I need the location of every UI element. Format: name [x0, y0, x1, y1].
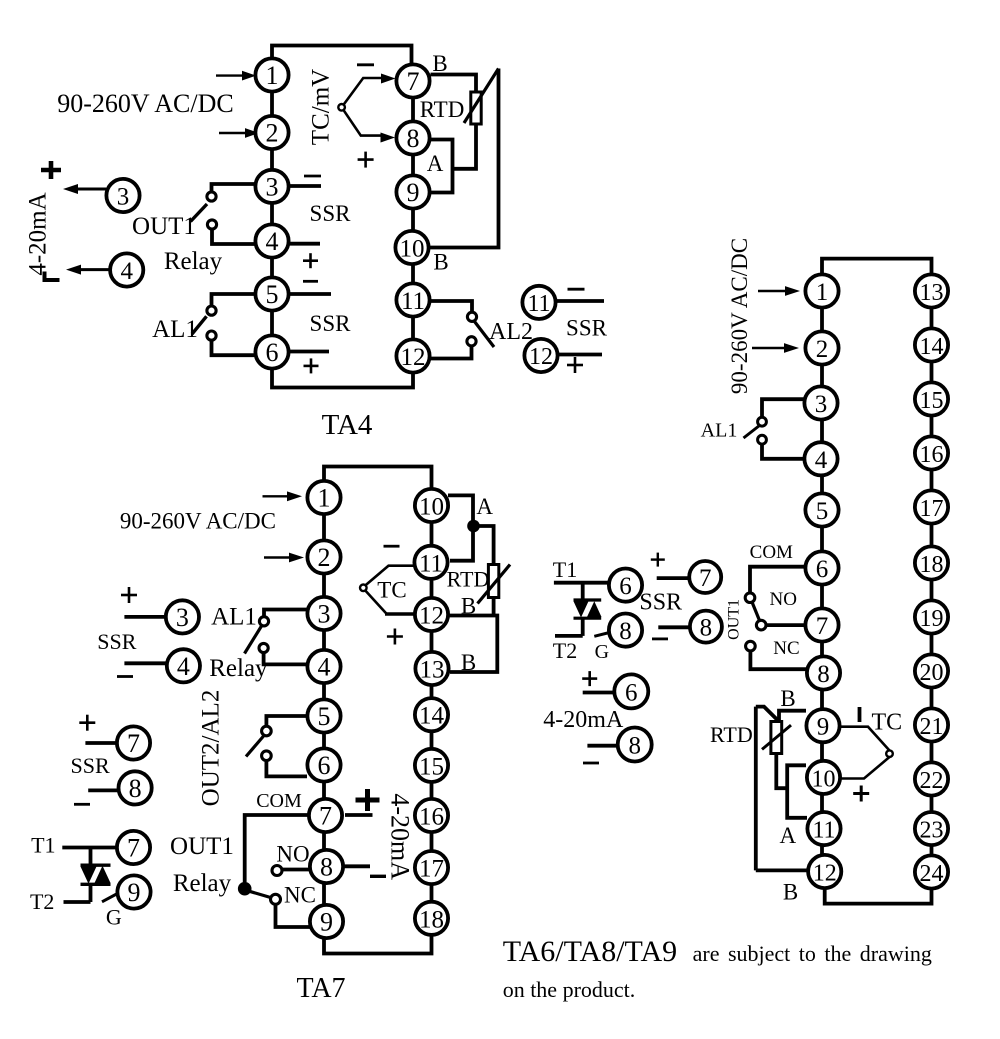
label minus (4-20mA) — [583, 762, 599, 765]
wire terminal3 to OUT1 switch — [212, 184, 257, 192]
OUT1 junction dot — [238, 882, 252, 896]
wire right column terminals 13-24 — [930, 291, 934, 872]
wire AL1 switch: terminal5 to contact — [212, 294, 257, 306]
TC node — [360, 585, 367, 592]
svg-text:11: 11 — [812, 818, 835, 844]
wire TC plus to terminal12 — [365, 591, 386, 614]
wire stub right of terminal8 — [344, 864, 370, 868]
svg-text:Relay: Relay — [164, 248, 223, 275]
svg-text:3: 3 — [318, 600, 331, 629]
wire AL1 switch to terminal4 — [264, 653, 307, 665]
AL1 switch bottom contact — [259, 643, 268, 652]
wire TA4 left column terminals 1-6 — [270, 75, 274, 352]
wire A-loop terminal10-terminal11 — [787, 765, 807, 818]
wire left column terminals 1-12 — [820, 291, 824, 872]
svg-text:4: 4 — [318, 653, 331, 682]
wire stub into terminal7 — [85, 741, 117, 745]
svg-text:1: 1 — [266, 61, 279, 90]
terminal 12 (AL2 SSR out) — [524, 339, 557, 372]
svg-text:4-20mA: 4-20mA — [543, 707, 624, 733]
svg-text:8: 8 — [619, 618, 632, 645]
svg-text:SSR: SSR — [566, 316, 608, 341]
svg-text:OUT1: OUT1 — [170, 833, 234, 860]
svg-text:on the product.: on the product. — [503, 977, 636, 1002]
terminal 22 — [915, 762, 948, 795]
arrow out of terminal 4 — [79, 268, 110, 271]
terminal 4 — [255, 224, 288, 257]
svg-text:4: 4 — [815, 447, 828, 474]
TC node — [338, 104, 345, 111]
RTD resistor — [488, 565, 498, 598]
TA7 terminal 10 — [415, 489, 448, 522]
svg-text:12: 12 — [419, 603, 444, 630]
label plus (OUT1 SSR) — [79, 715, 95, 731]
wire NO contact to terminal8 — [283, 868, 312, 872]
terminal 6 — [255, 335, 288, 368]
OUT1 NO contact — [756, 620, 766, 630]
wire TC minus to terminal11 — [366, 566, 415, 586]
terminal 11 — [396, 283, 429, 316]
terminal 3 — [804, 386, 837, 419]
svg-text:9: 9 — [817, 714, 830, 741]
TA7 terminal 11 — [414, 546, 447, 579]
svg-text:TC: TC — [871, 710, 902, 736]
TA7 terminal 3 — [307, 597, 340, 630]
wire NO contact to terminal7 — [766, 623, 806, 627]
svg-text:3: 3 — [815, 391, 828, 418]
wire TA7 right column terminals 10-18 — [430, 506, 434, 919]
svg-text:T2: T2 — [30, 889, 54, 914]
terminal 3 (AL1 SSR out) — [166, 600, 199, 633]
wire T1 to terminal6 — [554, 581, 609, 585]
terminal 3 (4-20mA out) — [106, 179, 139, 212]
wire TC plus to terminal10 — [841, 757, 890, 779]
triac symbol — [574, 583, 602, 636]
OUT1 NC contact — [746, 641, 756, 651]
wire TA4 top bus terminal1-terminal7 — [272, 46, 412, 82]
terminal 2 — [255, 116, 288, 149]
OUT1 switch blade — [752, 602, 760, 621]
TA7 terminal 1 — [307, 481, 340, 514]
terminal 18 — [915, 546, 948, 579]
RTD strike arrow — [478, 565, 511, 604]
label minus (4-20mA) — [45, 272, 60, 281]
caption TA6/TA8/TA9 note line 1 — [503, 935, 932, 968]
TA7 terminal 13 — [415, 652, 448, 685]
terminal 9 — [396, 175, 429, 208]
wire RTD bottom to A-loop — [453, 124, 477, 169]
svg-text:2: 2 — [318, 543, 331, 572]
svg-text:90-260V AC/DC: 90-260V AC/DC — [57, 89, 234, 118]
triac gate wire — [594, 633, 609, 637]
svg-text:B: B — [783, 879, 798, 904]
svg-text:Relay: Relay — [209, 655, 268, 682]
arrow into terminal 2 — [264, 556, 290, 558]
svg-text:6: 6 — [625, 679, 638, 706]
svg-text:21: 21 — [920, 714, 944, 740]
label plus (TC) — [387, 629, 403, 645]
wire NC contact to terminal8 — [750, 651, 807, 669]
wire terminal7 to RTD resistor — [431, 75, 477, 93]
RTD resistor — [771, 722, 782, 754]
wire stub into terminal7 — [657, 576, 690, 580]
svg-text:14: 14 — [920, 334, 944, 360]
terminal 13 — [915, 274, 948, 307]
terminal 11 — [807, 812, 840, 845]
svg-text:6: 6 — [619, 573, 632, 600]
svg-text:A: A — [427, 151, 444, 176]
svg-text:AL1: AL1 — [152, 316, 198, 343]
terminal 24 — [915, 855, 948, 888]
terminal 4 — [804, 442, 837, 475]
svg-text:A: A — [476, 494, 493, 519]
label plus (TC) — [853, 786, 869, 802]
svg-text:22: 22 — [920, 768, 944, 794]
triac gate wire — [102, 894, 118, 902]
svg-text:11: 11 — [401, 288, 425, 315]
OUT1 switch top contact — [207, 192, 216, 201]
terminal 8 (4-20mA) — [618, 728, 652, 762]
terminal 20 — [915, 654, 948, 687]
terminal 3 — [255, 170, 288, 203]
svg-text:8: 8 — [628, 733, 641, 760]
terminal 6 (triac T1) — [609, 569, 642, 602]
wire A-loop terminal8-terminal9 — [430, 140, 453, 193]
wire T1 to terminal7 — [62, 846, 117, 850]
svg-text:T1: T1 — [553, 557, 577, 582]
svg-text:T2: T2 — [553, 638, 577, 663]
OUT1 NO contact — [272, 866, 282, 876]
wire RTD resistor to A-loop — [776, 754, 787, 789]
svg-text:7: 7 — [127, 834, 140, 863]
terminal 19 — [915, 600, 948, 633]
label minus (SSR out1) — [304, 175, 321, 178]
label plus (AL1 SSR) — [121, 587, 137, 603]
terminal 10 — [807, 761, 840, 794]
AL1 switch top contact — [207, 306, 216, 315]
svg-text:4-20mA: 4-20mA — [386, 793, 415, 880]
triac symbol — [81, 848, 111, 903]
wire TC minus to terminal7 — [344, 78, 382, 105]
svg-text:8: 8 — [129, 774, 142, 803]
wire stub into terminal6 — [583, 691, 614, 695]
label minus (TC) — [384, 545, 400, 548]
wire AL1 switch to terminal4 — [762, 444, 805, 459]
svg-text:TC: TC — [377, 578, 406, 603]
OUT1 NC contact — [271, 894, 281, 904]
wire B left rail — [754, 707, 758, 871]
svg-text:11: 11 — [527, 291, 550, 317]
terminal 5 — [255, 277, 288, 310]
label minus (4-20mA) — [370, 875, 386, 878]
AL2 switch blade — [475, 322, 495, 348]
wire stub into terminal8 — [88, 789, 118, 793]
OUT1 switch blade — [191, 204, 208, 222]
AL1 switch blade — [192, 316, 207, 334]
terminal 7 (OUT1 SSR) — [117, 726, 150, 759]
wire terminal5 to OUT2/AL2 switch — [266, 716, 307, 726]
terminal 4 (4-20mA out) — [110, 253, 143, 286]
arrow into terminal 1 — [216, 74, 244, 76]
svg-text:5: 5 — [266, 280, 279, 309]
svg-text:TA7: TA7 — [296, 973, 345, 1004]
terminal 17 — [915, 490, 948, 523]
wire stub right of terminal4 — [289, 242, 320, 246]
svg-text:SSR: SSR — [639, 590, 682, 616]
svg-text:7: 7 — [816, 613, 829, 640]
RTD resistor — [471, 92, 481, 124]
OUT1 pivot contact — [745, 593, 755, 603]
svg-text:7: 7 — [699, 565, 712, 592]
svg-text:18: 18 — [920, 552, 944, 578]
AL1 switch blade — [744, 426, 760, 439]
wire RTD resistor to terminal12 wire — [492, 598, 496, 616]
label plus (AL1) — [304, 358, 319, 373]
svg-text:3: 3 — [117, 184, 130, 211]
svg-text:4: 4 — [266, 227, 279, 256]
terminal 12 — [808, 855, 841, 888]
svg-text:B: B — [432, 51, 447, 76]
svg-text:TA4: TA4 — [322, 409, 373, 441]
arrow into terminal 1 — [263, 495, 289, 497]
svg-text:5: 5 — [816, 498, 829, 525]
label plus (TC) — [358, 152, 374, 168]
AL1 switch bottom contact — [207, 331, 216, 340]
terminal 5 — [805, 493, 838, 526]
svg-text:1: 1 — [816, 279, 829, 306]
wire terminal3 to AL1 switch — [264, 610, 307, 617]
terminal 8 — [807, 656, 840, 689]
svg-text:OUT1: OUT1 — [726, 599, 743, 640]
wire junction to RTD resistor — [474, 526, 494, 565]
arrow into terminal 2 — [752, 347, 785, 349]
terminal 11 (AL2 SSR out) — [522, 286, 555, 319]
svg-text:NC: NC — [284, 883, 316, 908]
arrowhead into terminal7 — [381, 74, 396, 84]
svg-text:4-20mA: 4-20mA — [25, 192, 52, 275]
terminal 9 — [806, 709, 839, 742]
svg-text:SSR: SSR — [310, 311, 352, 336]
wire terminal7 to OUT1 junction — [245, 815, 311, 882]
svg-text:RTD: RTD — [447, 566, 490, 591]
svg-text:16: 16 — [419, 804, 444, 831]
wire stub right of terminal11 — [557, 299, 605, 303]
svg-text:19: 19 — [920, 606, 944, 632]
svg-text:B: B — [461, 650, 476, 675]
wire AL2 switch to terminal12 — [431, 346, 472, 359]
wire stub right of terminal6 — [290, 350, 329, 354]
RTD strike arrow — [762, 725, 791, 749]
svg-text:NC: NC — [773, 638, 799, 659]
TA7 terminal 12 — [415, 598, 448, 631]
svg-text:7: 7 — [127, 729, 140, 758]
svg-text:TC/mV: TC/mV — [308, 69, 335, 145]
svg-text:9: 9 — [407, 178, 420, 207]
wire left rail to terminal12 — [756, 869, 808, 873]
AL1 switch bottom contact — [758, 435, 767, 444]
svg-text:8: 8 — [817, 661, 830, 688]
OUT1 switch blade — [250, 891, 272, 897]
svg-text:90-260V AC/DC: 90-260V AC/DC — [727, 238, 752, 394]
wire stub into terminal8 — [587, 744, 618, 748]
terminal 23 — [915, 812, 948, 845]
label minus (AL2) — [568, 288, 585, 291]
wire terminal6 to OUT1 pivot — [750, 567, 806, 593]
wire stub right of terminal12 — [559, 353, 603, 357]
svg-text:6: 6 — [816, 556, 829, 583]
terminal 14 — [915, 328, 948, 361]
arrow out of terminal 3 — [76, 188, 106, 191]
svg-text:B: B — [433, 250, 448, 275]
svg-text:90-260V AC/DC: 90-260V AC/DC — [120, 509, 276, 534]
AL1 switch top contact — [259, 617, 268, 626]
AL2 switch top contact — [467, 312, 476, 321]
wire B kink to left rail — [756, 707, 779, 722]
svg-text:10: 10 — [419, 494, 444, 521]
OUT2/AL2 switch top contact — [262, 726, 272, 736]
terminal 15 — [915, 382, 948, 415]
wire TA4 right column terminals 7-12 — [411, 81, 415, 356]
terminal 8 (triac gate) — [609, 614, 642, 647]
wire A-loop terminal10-terminal11 — [448, 495, 473, 560]
svg-text:14: 14 — [419, 703, 445, 730]
svg-text:16: 16 — [920, 442, 944, 468]
label plus (4-20mA) big — [356, 789, 380, 811]
svg-text:SSR: SSR — [310, 201, 352, 226]
svg-text:15: 15 — [419, 753, 444, 780]
svg-text:NO: NO — [276, 842, 309, 867]
svg-text:24: 24 — [920, 861, 944, 887]
wire stub into terminal3 — [124, 615, 166, 619]
wire stub right of terminal3 — [289, 184, 321, 188]
label minus (SSR) — [652, 638, 668, 641]
svg-text:10: 10 — [812, 766, 836, 792]
wire bottom bus terminal12-terminal24 — [825, 872, 932, 904]
svg-text:SSR: SSR — [71, 753, 110, 778]
svg-text:12: 12 — [401, 344, 426, 371]
AL2 switch bottom contact — [467, 337, 476, 346]
terminal 7 (triac T1) — [117, 831, 150, 864]
wire B terminal12-terminal13 — [449, 616, 497, 673]
label plus (4-20mA) — [582, 671, 597, 686]
label minus (AL1) — [303, 280, 318, 283]
label plus (SSR) — [651, 553, 665, 567]
svg-text:G: G — [106, 905, 122, 930]
terminal 21 — [915, 708, 948, 741]
OUT1 switch bottom contact — [207, 220, 216, 229]
svg-text:SSR: SSR — [97, 629, 136, 654]
svg-text:AL1: AL1 — [211, 604, 257, 631]
svg-text:20: 20 — [920, 660, 944, 686]
wire stub right of terminal5 — [290, 292, 331, 296]
svg-text:23: 23 — [920, 818, 944, 844]
label minus (TC) — [357, 63, 374, 66]
wire OUT2/AL2 switch to terminal6 — [266, 761, 307, 777]
svg-text:13: 13 — [420, 657, 445, 684]
svg-text:12: 12 — [813, 861, 837, 887]
TA7 terminal 17 — [415, 851, 448, 884]
wire TC minus to terminal9 — [839, 727, 890, 751]
wire TA7 left column terminals 1-9 — [322, 498, 326, 922]
svg-text:5: 5 — [318, 702, 331, 731]
svg-text:3: 3 — [266, 172, 279, 201]
svg-text:B: B — [780, 686, 795, 711]
wire T2 — [64, 900, 91, 904]
AL1 switch top contact — [758, 417, 767, 426]
terminal 1 — [805, 274, 838, 307]
svg-text:18: 18 — [419, 906, 444, 933]
wire stub into terminal4 — [124, 661, 167, 665]
arrow into terminal 1 — [758, 290, 786, 292]
svg-text:8: 8 — [700, 615, 713, 642]
wire OUT1 switch to terminal4 — [212, 229, 256, 244]
svg-text:13: 13 — [920, 280, 944, 306]
svg-text:6: 6 — [318, 751, 331, 780]
svg-text:17: 17 — [920, 496, 944, 522]
arrow into terminal 2 — [219, 132, 247, 134]
svg-text:7: 7 — [319, 802, 332, 831]
wire terminal3 to AL1 switch — [762, 399, 805, 417]
wire TA7 top bus terminal1-terminal10 — [324, 467, 432, 506]
svg-text:AL1: AL1 — [701, 420, 738, 442]
wire stub into terminal8 — [658, 625, 690, 629]
svg-text:9: 9 — [128, 878, 141, 907]
terminal 7 — [396, 64, 429, 97]
wire terminal9 B — [779, 711, 806, 722]
OUT2/AL2 switch blade — [246, 736, 264, 757]
svg-text:2: 2 — [266, 119, 279, 148]
svg-text:11: 11 — [419, 550, 443, 577]
wire TA4 bottom bus terminal6-terminal12 — [272, 352, 413, 388]
TC node — [886, 750, 893, 757]
wire NC contact to terminal9 — [276, 905, 312, 928]
svg-text:4: 4 — [120, 258, 133, 285]
svg-text:6: 6 — [266, 338, 279, 367]
terminal 8 (SSR out) — [690, 611, 722, 643]
terminal 16 — [915, 436, 948, 469]
svg-text:COM: COM — [256, 790, 302, 812]
wire B-line to terminal10 — [428, 69, 499, 248]
terminal 7 — [805, 608, 838, 641]
wire stub right of terminal7 — [345, 813, 373, 817]
TA7 terminal 2 — [307, 540, 340, 573]
label minus (TC) vertical — [858, 707, 862, 722]
svg-text:8: 8 — [320, 853, 333, 882]
svg-text:NO: NO — [769, 589, 796, 610]
svg-text:RTD: RTD — [420, 97, 465, 122]
TA7 terminal 6 — [307, 748, 340, 781]
svg-text:10: 10 — [400, 236, 425, 263]
AL1 switch blade — [245, 626, 262, 654]
TA7 terminal 18 — [415, 902, 448, 935]
svg-text:15: 15 — [920, 388, 944, 414]
terminal 8 — [396, 121, 429, 154]
svg-text:COM: COM — [750, 542, 793, 563]
svg-text:G: G — [595, 641, 609, 663]
svg-text:8: 8 — [407, 124, 420, 153]
terminal 10 — [395, 231, 428, 264]
svg-text:B: B — [461, 594, 476, 619]
terminal 6 (4-20mA) — [614, 674, 648, 708]
svg-text:OUT1: OUT1 — [132, 213, 196, 240]
terminal 4 (AL1 SSR out) — [167, 649, 200, 682]
terminal 7 (SSR out) — [689, 561, 721, 593]
terminal 6 — [805, 551, 838, 584]
TA7 terminal 14 — [415, 698, 448, 731]
svg-text:17: 17 — [419, 856, 444, 883]
svg-text:9: 9 — [320, 908, 333, 937]
svg-text:12: 12 — [529, 344, 553, 370]
